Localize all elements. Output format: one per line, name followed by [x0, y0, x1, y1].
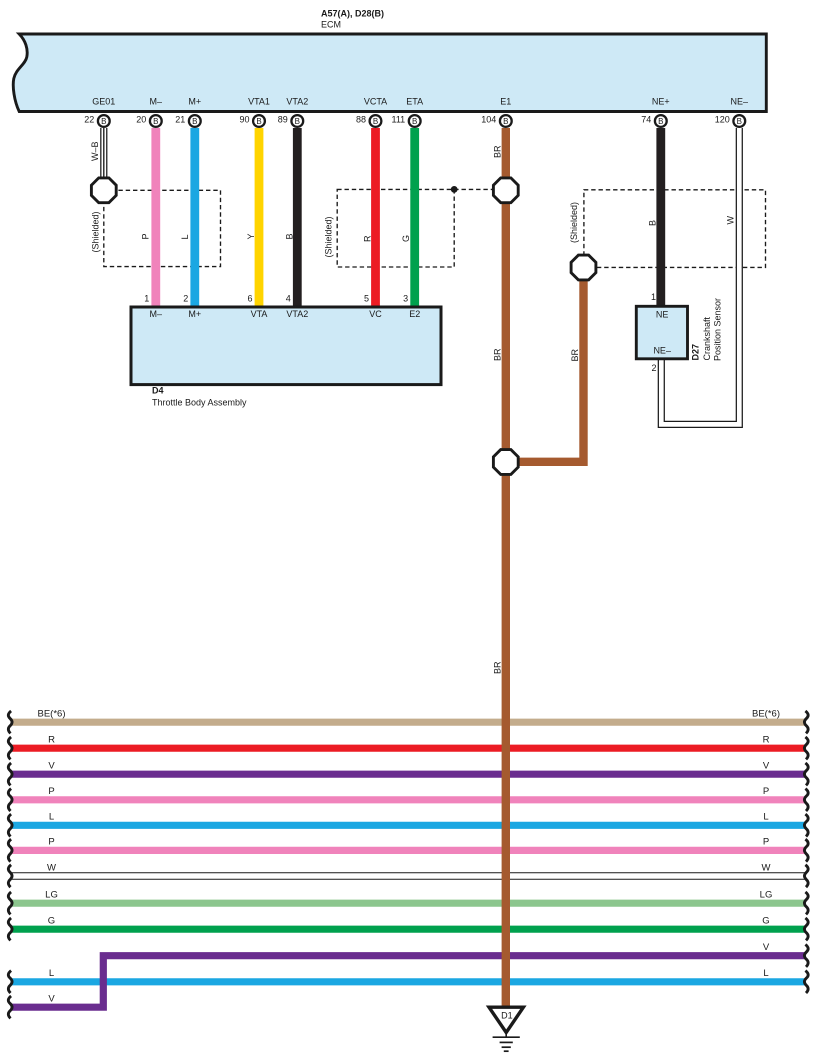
svg-text:2: 2	[183, 294, 188, 304]
node continuation mark left y=903	[8, 892, 12, 914]
node continuation mark left y=774	[8, 763, 12, 785]
svg-text:M+: M+	[188, 309, 201, 319]
node continuation mark left y=850	[8, 839, 12, 861]
node continuation mark right y=722	[804, 711, 808, 733]
svg-text:VTA: VTA	[251, 309, 268, 319]
svg-text:22: 22	[84, 114, 94, 124]
svg-text:W: W	[762, 862, 771, 873]
svg-text:88: 88	[356, 114, 366, 124]
svg-text:VTA2: VTA2	[286, 309, 308, 319]
svg-text:104: 104	[481, 114, 496, 124]
svg-text:LG: LG	[760, 890, 773, 901]
svg-text:B: B	[256, 117, 261, 126]
svg-text:D1: D1	[501, 1011, 513, 1021]
svg-text:E2: E2	[409, 309, 420, 319]
svg-text:20: 20	[136, 114, 146, 124]
svg-text:BE(*6): BE(*6)	[752, 709, 780, 720]
wire LG horizontal bus y=903	[12, 900, 805, 907]
svg-text:V: V	[48, 994, 55, 1005]
wire P horizontal bus y=800	[12, 796, 805, 803]
node continuation mark left y=825	[8, 814, 12, 836]
shield dashed box 1 (GE01 group)	[104, 190, 221, 266]
wire BR main E1 to ground	[502, 128, 510, 1006]
wire BR shield drain elbow	[518, 278, 584, 462]
svg-text:B: B	[412, 117, 417, 126]
svg-text:4: 4	[286, 294, 291, 304]
svg-text:W: W	[725, 216, 735, 225]
svg-text:BE(*6): BE(*6)	[38, 709, 66, 720]
svg-text:M+: M+	[188, 97, 201, 107]
svg-text:(Shielded): (Shielded)	[324, 216, 334, 257]
svg-text:ETA: ETA	[406, 97, 423, 107]
svg-text:B: B	[153, 117, 158, 126]
svg-text:89: 89	[278, 114, 288, 124]
svg-text:P: P	[48, 786, 54, 797]
node continuation mark right y=903	[804, 892, 808, 914]
svg-text:V: V	[763, 942, 770, 953]
svg-text:NE+: NE+	[652, 97, 670, 107]
svg-text:B: B	[658, 117, 663, 126]
wire G green ETA	[410, 128, 419, 307]
node continuation mark right y=800	[804, 789, 808, 811]
svg-text:B: B	[647, 220, 657, 226]
svg-text:120: 120	[715, 114, 730, 124]
svg-text:E1: E1	[500, 97, 511, 107]
svg-text:P: P	[48, 837, 54, 848]
svg-text:1: 1	[144, 294, 149, 304]
svg-text:NE: NE	[656, 310, 669, 320]
svg-text:B: B	[295, 117, 300, 126]
node continuation mark left y=748	[8, 737, 12, 759]
wire W-B shield drain at GE01	[100, 128, 107, 178]
node continuation mark left y=876	[8, 865, 12, 887]
svg-text:Position Sensor: Position Sensor	[713, 298, 723, 361]
wire B black NE+	[656, 128, 665, 308]
svg-text:21: 21	[175, 114, 185, 124]
svg-text:L: L	[49, 812, 54, 823]
svg-text:VCTA: VCTA	[364, 97, 387, 107]
svg-text:B: B	[503, 117, 508, 126]
wire P horizontal bus y=850	[12, 847, 805, 854]
svg-text:P: P	[763, 837, 769, 848]
svg-text:3: 3	[403, 294, 408, 304]
wire V stepped bus	[12, 956, 805, 1008]
node continuation mark left y=800	[8, 789, 12, 811]
node continuation mark left y=982	[8, 971, 12, 993]
shield dashed box 2 (VCTA/ETA group)	[337, 189, 454, 267]
svg-text:(Shielded): (Shielded)	[91, 211, 101, 252]
wire R red VCTA	[371, 128, 380, 307]
svg-text:LG: LG	[45, 890, 58, 901]
svg-text:BR: BR	[493, 348, 503, 361]
wire R horizontal bus y=748	[12, 745, 805, 752]
node continuation mark right y=876	[804, 865, 808, 887]
node continuation mark right y=825	[804, 814, 808, 836]
svg-text:P: P	[763, 786, 769, 797]
wire dashed shield drain to E1 octagon	[454, 188, 492, 190]
svg-text:M–: M–	[150, 309, 163, 319]
svg-text:B: B	[373, 117, 378, 126]
svg-text:5: 5	[364, 294, 369, 304]
node shield junction dot	[451, 186, 458, 193]
svg-text:V: V	[763, 761, 770, 772]
svg-text:M–: M–	[150, 97, 163, 107]
svg-text:L: L	[49, 968, 54, 979]
svg-text:B: B	[192, 117, 197, 126]
svg-text:V: V	[48, 761, 55, 772]
ground D1	[489, 1007, 523, 1032]
node continuation mark right y=748	[804, 737, 808, 759]
svg-text:VTA1: VTA1	[248, 97, 270, 107]
svg-text:BR: BR	[570, 348, 580, 361]
wire V horizontal bus y=774	[12, 771, 805, 778]
wire BE(*6) horizontal bus y=722	[12, 719, 805, 726]
wire P pink M-	[151, 128, 160, 307]
svg-text:L: L	[763, 968, 768, 979]
wire G horizontal bus y=929	[12, 926, 805, 933]
node continuation mark left y=1007	[8, 996, 12, 1018]
svg-text:NE–: NE–	[731, 97, 749, 107]
node continuation mark left y=722	[8, 711, 12, 733]
svg-text:B: B	[284, 233, 294, 239]
node continuation mark right y=982	[804, 971, 808, 993]
shield dashed box 3 (NE group)	[584, 190, 766, 268]
wire W white NE- loop	[661, 128, 739, 424]
node shield octagon on E1 wire	[493, 178, 518, 203]
wire L horizontal bus y=982	[12, 978, 805, 985]
svg-text:W: W	[47, 862, 56, 873]
svg-text:BR: BR	[493, 145, 503, 158]
svg-text:G: G	[48, 916, 55, 927]
node continuation mark right y=850	[804, 839, 808, 861]
svg-text:(Shielded): (Shielded)	[569, 202, 579, 243]
component D4 Throttle Body Assembly	[131, 307, 441, 385]
svg-text:D27: D27	[691, 344, 701, 361]
svg-text:74: 74	[641, 114, 651, 124]
svg-text:BR: BR	[493, 661, 503, 674]
svg-text:2: 2	[651, 363, 656, 373]
svg-text:90: 90	[239, 114, 249, 124]
node shield octagon NE group	[571, 255, 596, 280]
wire B black VTA2	[293, 128, 302, 307]
svg-text:G: G	[762, 916, 769, 927]
node shield octagon BR junction	[493, 450, 518, 475]
node shield octagon GE01	[91, 178, 116, 203]
wire Y yellow VTA1	[255, 128, 264, 307]
svg-text:GE01: GE01	[92, 97, 115, 107]
svg-text:NE–: NE–	[653, 345, 671, 355]
svg-text:R: R	[48, 735, 55, 746]
svg-text:P: P	[141, 233, 151, 239]
svg-text:ECM: ECM	[321, 20, 341, 30]
node continuation mark right y=774	[804, 763, 808, 785]
node continuation mark right y=956	[804, 945, 808, 967]
component D27 Crankshaft Position Sensor	[636, 306, 687, 359]
wire L horizontal bus y=825	[12, 822, 805, 829]
svg-text:1: 1	[651, 292, 656, 302]
svg-text:L: L	[763, 812, 768, 823]
wire L blue M+	[190, 128, 199, 307]
ECM box A57(A), D28(B)	[13, 34, 766, 112]
svg-text:Crankshaft: Crankshaft	[702, 316, 712, 360]
svg-text:VC: VC	[369, 309, 382, 319]
svg-text:6: 6	[247, 294, 252, 304]
svg-text:A57(A), D28(B): A57(A), D28(B)	[321, 9, 384, 19]
svg-text:L: L	[180, 234, 190, 239]
svg-text:B: B	[737, 117, 742, 126]
svg-text:R: R	[763, 735, 770, 746]
svg-text:D4: D4	[152, 385, 164, 395]
svg-text:B: B	[101, 117, 106, 126]
svg-text:Throttle Body Assembly: Throttle Body Assembly	[152, 397, 247, 407]
svg-text:W–B: W–B	[90, 141, 100, 161]
svg-text:R: R	[362, 235, 372, 242]
wire W horizontal bus y=876	[12, 872, 805, 879]
node continuation mark left y=929	[8, 918, 12, 940]
svg-text:Y: Y	[246, 233, 256, 239]
svg-text:111: 111	[392, 114, 406, 124]
svg-text:G: G	[401, 235, 411, 242]
node continuation mark right y=929	[804, 918, 808, 940]
svg-text:VTA2: VTA2	[286, 97, 308, 107]
